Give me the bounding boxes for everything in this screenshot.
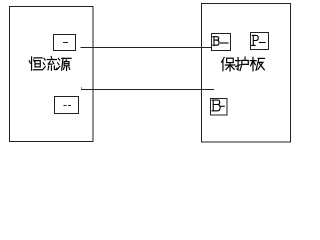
char 源 (57, 58, 71, 70)
block: protection board enclosure (保护板) (202, 4, 291, 143)
label -- (double dash) (64, 105, 67, 107)
char 护 (236, 57, 249, 70)
char 流 (43, 56, 57, 70)
wire: source minus to B- (top) (81, 47, 212, 49)
char 板 (250, 57, 264, 71)
terminal box: B- (top) of protection board (212, 34, 231, 51)
wire: source -- toward lower B- (open end) (81, 88, 214, 90)
label B- (top) (213, 37, 228, 46)
terminal box: B- (lower) of protection board (211, 99, 228, 116)
label B- (lower) (212, 100, 224, 111)
text 恒流源 drawn as strokes (29, 56, 71, 70)
label - (minus) (63, 42, 68, 44)
terminal box: P- of protection board (251, 33, 269, 50)
char 保 (222, 58, 235, 71)
terminal box: minus output of source (54, 35, 76, 51)
block: constant-current source enclosure (恒流源) (10, 7, 94, 142)
label P- (252, 35, 265, 45)
text 保护板 drawn as strokes (222, 57, 265, 71)
char 恒 (29, 57, 42, 70)
terminal box: -- output of source (55, 97, 79, 114)
